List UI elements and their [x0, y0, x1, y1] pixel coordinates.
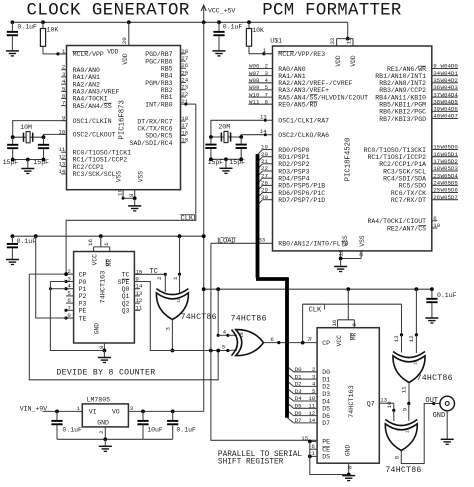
svg-text:VDD: VDD — [107, 49, 118, 56]
connector X1 OUT — [440, 396, 455, 411]
svg-text:Q7: Q7 — [367, 401, 375, 408]
IC1 pin 15 stub — [181, 142, 186, 144]
xor gate IC3B 74HCT86 middle — [232, 330, 238, 356]
svg-text:15: 15 — [301, 435, 308, 442]
wire XOR2 input 5 stub — [228, 349, 237, 352]
ground connector — [441, 438, 454, 440]
wire VCC rail y289 — [204, 288, 432, 290]
svg-text:17: 17 — [181, 122, 188, 129]
svg-text:5: 5 — [62, 85, 66, 92]
svg-text:GND: GND — [97, 420, 109, 427]
svg-text:3: 3 — [62, 71, 66, 78]
resistor R2 10K — [248, 22, 250, 28]
U$1 pin 37 wire with net label W04D4 — [432, 96, 458, 98]
svg-text:6: 6 — [433, 215, 437, 222]
svg-text:30: 30 — [261, 194, 268, 201]
svg-text:W10: W10 — [249, 91, 260, 98]
svg-text:2: 2 — [98, 430, 105, 434]
svg-text:12: 12 — [337, 249, 344, 256]
wire CP loop left — [29, 273, 66, 275]
wire U$1 VSS join — [341, 258, 362, 260]
svg-text:DEVIDE BY 8 COUNTER: DEVIDE BY 8 COUNTER — [56, 369, 155, 378]
U$1 pin 1 stub — [267, 53, 272, 55]
svg-text:0.1uF: 0.1uF — [17, 238, 37, 245]
IC2 pin 13 Q1 stub — [134, 295, 140, 297]
svg-text:RB1/AN10/INT1: RB1/AN10/INT1 — [375, 73, 426, 80]
svg-text:11: 11 — [401, 386, 408, 393]
svg-text:12: 12 — [408, 335, 415, 342]
bus spine vertical 1 — [256, 154, 260, 277]
wire VCC to XOR3 input 12 — [415, 289, 417, 335]
svg-text:5: 5 — [312, 388, 316, 395]
IC2 pin 15 TC stub — [134, 273, 140, 275]
svg-text:CLK: CLK — [181, 215, 194, 223]
svg-text:9: 9 — [351, 323, 358, 327]
svg-text:2: 2 — [265, 63, 269, 70]
svg-text:W04D1: W04D1 — [441, 70, 459, 77]
svg-text:W05D4: W05D4 — [441, 172, 459, 179]
U$1 VSS pin 31 — [360, 251, 362, 259]
svg-text:RD6/PSP6/P1C: RD6/PSP6/P1C — [278, 190, 325, 197]
IC1 pin 13 stub — [61, 166, 66, 168]
svg-text:14: 14 — [135, 283, 142, 290]
svg-text:74HCT86: 74HCT86 — [231, 314, 267, 323]
svg-text:MR: MR — [350, 332, 357, 340]
IC1 pin 3 stub — [61, 76, 66, 78]
svg-text:PGC/RB6: PGC/RB6 — [145, 58, 172, 65]
svg-text:RD3/PSP3: RD3/PSP3 — [278, 168, 309, 175]
svg-text:D3: D3 — [322, 391, 330, 398]
svg-text:32: 32 — [329, 37, 336, 44]
svg-text:PGM/RB3: PGM/RB3 — [145, 80, 172, 87]
U$1 pin 19 stub with bus entry — [263, 149, 273, 151]
svg-text:3: 3 — [312, 373, 316, 380]
svg-text:RC7/RX/DT: RC7/RX/DT — [391, 197, 426, 204]
svg-text:W05D2: W05D2 — [441, 158, 459, 165]
svg-text:D1: D1 — [322, 376, 330, 383]
IC1 VSS pin 19 — [122, 190, 124, 199]
svg-text:10: 10 — [308, 395, 315, 402]
IC2 pin 4 P1 stub — [66, 288, 74, 290]
svg-text:RA4/T0CKI: RA4/T0CKI — [73, 96, 108, 103]
svg-text:PIC18F4520: PIC18F4520 — [344, 138, 352, 182]
svg-text:CP: CP — [79, 271, 87, 278]
svg-text:W07: W07 — [249, 70, 260, 77]
IC1 pin 11 stub — [61, 151, 66, 153]
U$1 pin 3 wire with net label W07 — [249, 75, 273, 77]
svg-text:D1: D1 — [295, 373, 302, 380]
svg-text:1B: 1B — [239, 332, 245, 338]
wire SPE net — [134, 282, 228, 351]
IC4 pin 1 DS wire — [310, 455, 317, 457]
wire VCC mid rail y236 — [12, 235, 203, 237]
svg-text:RB0/AN12/INT0/FLT0: RB0/AN12/INT0/FLT0 — [278, 241, 348, 248]
capacitor C1 0.1uF top-left — [11, 22, 13, 31]
svg-text:TE: TE — [79, 315, 87, 322]
wire PE from LOAD — [310, 440, 317, 442]
svg-text:10: 10 — [386, 401, 393, 408]
svg-text:SAD/SDI/RC4: SAD/SDI/RC4 — [130, 140, 173, 147]
U$1 pin 18 wire with net label W05D3 — [432, 170, 458, 172]
svg-text:RC3/SCK/SCL: RC3/SCK/SCL — [73, 171, 116, 178]
svg-text:1B: 1B — [176, 297, 182, 303]
IC2 pin 0 TE stub — [66, 317, 74, 319]
IC2 pin 9 SPE stub — [134, 281, 140, 283]
ground for C1 — [6, 50, 19, 52]
svg-text:16: 16 — [181, 129, 188, 136]
wire VSS join — [123, 197, 135, 199]
svg-text:PE: PE — [322, 439, 330, 446]
wire R1 to pin1 — [43, 53, 58, 55]
ground C8 — [425, 317, 438, 319]
U$1 pin 27 stub with bus entry — [263, 177, 273, 179]
wire VDD riser of IC1 — [128, 22, 130, 45]
wire cap bottom rail — [13, 159, 44, 161]
svg-text:DS: DS — [322, 454, 330, 461]
svg-text:13: 13 — [58, 161, 65, 168]
svg-text:SPE: SPE — [118, 279, 130, 286]
U$1 pin 14 OSC2 — [267, 134, 272, 136]
U$1 pin 33 wire LOAD — [211, 242, 273, 244]
svg-text:3: 3 — [265, 70, 269, 77]
svg-text:74HCT163: 74HCT163 — [348, 385, 356, 418]
IC2 pin 3 P0 stub — [66, 281, 74, 283]
svg-text:20: 20 — [121, 37, 128, 44]
svg-text:W05D6: W05D6 — [441, 187, 459, 194]
wire TE to VCC — [36, 236, 66, 318]
U$1 pin 9 wire with net label W04D0 — [432, 68, 458, 70]
wire R2 to pin1 of U$1 — [249, 53, 264, 55]
U$1 pin 5 wire with net label W09 — [249, 89, 273, 91]
svg-text:0.1uF: 0.1uF — [176, 427, 196, 434]
ground crystal 2 caps — [220, 167, 233, 169]
wire P0 P1 to ground net — [50, 281, 66, 283]
svg-text:0.1uF: 0.1uF — [223, 24, 243, 31]
ground IC2 — [98, 357, 111, 359]
IC2 pin 7 PE stub — [66, 309, 74, 311]
svg-text:U$1: U$1 — [270, 37, 282, 44]
U$1 pin 28 stub with bus entry — [263, 184, 273, 186]
IC1 pin 23 stub — [181, 89, 186, 91]
wire OSC2 to crystal — [44, 134, 67, 137]
svg-text:RC0/T1OSO/T1CKI: RC0/T1OSO/T1CKI — [73, 150, 132, 157]
U$1 pin 10 stub — [432, 227, 438, 229]
svg-text:RD7/PSP7/P1D: RD7/PSP7/P1D — [278, 197, 325, 204]
IC1 pin 22 stub — [181, 96, 186, 98]
svg-text:RC6/TX/CK: RC6/TX/CK — [391, 190, 426, 197]
svg-text:D0: D0 — [322, 369, 330, 376]
capacitor C6 15pF — [240, 137, 242, 144]
U$1 pin 30 stub with bus entry — [263, 199, 273, 201]
svg-text:6: 6 — [62, 92, 66, 99]
svg-text:10: 10 — [433, 222, 440, 229]
svg-text:22: 22 — [261, 165, 268, 172]
svg-text:22: 22 — [181, 91, 188, 98]
ground regulator — [99, 445, 112, 447]
svg-text:2: 2 — [67, 268, 71, 275]
svg-text:15: 15 — [181, 137, 188, 144]
capacitor C9 0.1uF input — [56, 411, 58, 420]
IC2 pin 14 Q0 stub — [134, 288, 140, 290]
svg-text:1: 1 — [62, 48, 66, 55]
capacitor C5 15pF — [210, 137, 212, 144]
svg-text:RB2/AN8/INT2: RB2/AN8/INT2 — [379, 80, 426, 87]
svg-text:VSS: VSS — [138, 171, 145, 182]
svg-text:RA4/T0CKI/CIOUT: RA4/T0CKI/CIOUT — [367, 218, 426, 225]
wire VCC feed to IC4 — [347, 289, 349, 320]
svg-text:OUT: OUT — [425, 397, 438, 405]
bus overdraw spine 1 — [256, 154, 260, 277]
IC2 pin 2 CP stub — [66, 273, 74, 275]
svg-text:12: 12 — [58, 153, 65, 160]
IC4 pin 11 D5 wire with bus entry — [294, 407, 318, 409]
IC1 pin 10 stub — [61, 133, 66, 135]
svg-text:RA0/AN0: RA0/AN0 — [73, 67, 100, 74]
svg-text:1: 1 — [77, 405, 81, 412]
IC2 pin 5 P2 stub — [66, 295, 74, 297]
U$1 pin 16 wire with net label W05D1 — [432, 156, 458, 158]
svg-text:RE2/AN7/CS: RE2/AN7/CS — [387, 225, 426, 232]
svg-text:W05D0: W05D0 — [441, 144, 459, 151]
IC2 GND pin 8 — [103, 343, 105, 351]
svg-text:P1: P1 — [79, 286, 87, 293]
svg-text:12: 12 — [135, 297, 142, 304]
U$1 pin 25 wire with net label W05D6 — [432, 192, 458, 194]
svg-text:23: 23 — [181, 84, 188, 91]
svg-text:D3: D3 — [295, 388, 302, 395]
wire LOAD vertical — [211, 243, 317, 440]
capacitor C8 0.1uF right — [431, 289, 433, 298]
svg-text:7: 7 — [62, 100, 66, 107]
IC4 pin 12 D6 wire with bus entry — [294, 415, 318, 417]
svg-text:28: 28 — [261, 180, 268, 187]
svg-text:16: 16 — [87, 239, 94, 246]
U$1 pin 39 wire with net label W04D6 — [432, 110, 458, 112]
svg-text:0.1uF: 0.1uF — [437, 292, 457, 299]
svg-text:4: 4 — [223, 329, 227, 336]
svg-text:VI: VI — [89, 409, 97, 416]
svg-text:RB1: RB1 — [161, 94, 173, 101]
svg-text:4: 4 — [62, 78, 66, 85]
svg-text:D6: D6 — [295, 410, 302, 417]
IC4 pin 3 D1 wire with bus entry — [294, 378, 318, 380]
svg-text:RC4/SDI/SDA: RC4/SDI/SDA — [383, 176, 426, 183]
svg-text:1: 1 — [263, 47, 267, 54]
svg-text:6: 6 — [311, 443, 315, 450]
svg-text:Q3: Q3 — [122, 308, 130, 315]
svg-text:33: 33 — [258, 237, 265, 244]
svg-text:1: 1 — [311, 450, 315, 457]
IC1 pin 7 stub — [61, 105, 66, 107]
wire OSC2 U$1 to crystal — [241, 135, 265, 137]
U$1 pin 15 wire with net label W05D0 — [432, 149, 458, 151]
svg-text:12: 12 — [308, 410, 315, 417]
svg-text:Q0: Q0 — [122, 286, 130, 293]
IC4 pin 6 CE wire — [310, 448, 317, 450]
svg-text:W11: W11 — [249, 98, 260, 105]
svg-text:RA0/AN0: RA0/AN0 — [278, 66, 305, 73]
U$1 pin 20 stub with bus entry — [263, 156, 273, 158]
IC1 pin 2 stub — [61, 69, 66, 71]
svg-text:19: 19 — [261, 144, 268, 151]
svg-text:RB4: RB4 — [161, 73, 173, 80]
svg-text:15pF: 15pF — [33, 159, 49, 166]
IC2 pin 6 P3 stub — [66, 302, 74, 304]
wire VCC rail — [12, 21, 347, 23]
svg-text:RD5/PSP5/P1B: RD5/PSP5/P1B — [278, 183, 325, 190]
svg-text:5: 5 — [265, 84, 269, 91]
wire XOR3 output pin 11 to XOR4 input 9 — [408, 383, 410, 404]
xor gate IC3D 74HCT86 — [385, 420, 417, 426]
wire connector shield to ground — [446, 411, 448, 439]
wire OSC1 to crystal — [13, 121, 67, 138]
svg-text:W04D3: W04D3 — [441, 84, 459, 91]
svg-text:W04D6: W04D6 — [441, 106, 459, 113]
power symbol VCC_+5V — [203, 6, 205, 22]
wire VIN input — [43, 410, 77, 412]
svg-text:OSC1/CLKIN: OSC1/CLKIN — [73, 118, 112, 125]
svg-text:16: 16 — [331, 319, 338, 326]
IC1 pin 16 stub — [181, 134, 186, 136]
svg-text:D4: D4 — [295, 395, 302, 402]
svg-text:1B: 1B — [405, 428, 411, 434]
svg-text:W06: W06 — [249, 63, 260, 70]
IC4 pin 10 D4 wire with bus entry — [294, 400, 318, 402]
svg-text:LM7805: LM7805 — [87, 396, 111, 403]
IC U$1 PIC18F4520 body — [273, 46, 432, 251]
svg-text:W05D7: W05D7 — [441, 194, 459, 201]
svg-text:0.1uF: 0.1uF — [17, 24, 37, 31]
IC1 pin 1 stub — [61, 53, 66, 55]
IC1 pin 14 stub — [61, 173, 66, 175]
wire VDD riser of U$1 — [347, 22, 349, 38]
bus corner horizontal — [256, 277, 289, 281]
crystal Q2 20M — [224, 131, 228, 142]
wire CLK to XOR3 input 13 — [303, 303, 402, 305]
svg-text:TC: TC — [122, 272, 130, 279]
svg-text:PIC16F873: PIC16F873 — [119, 100, 127, 139]
ground C7 — [6, 259, 19, 261]
U$1 pin 8 wire with net label W11 — [249, 103, 273, 105]
svg-text:Q2: Q2 — [122, 300, 130, 307]
IC1 pin 27 stub — [181, 60, 186, 62]
svg-text:RC1/T1OSI/ICCP2: RC1/T1OSI/ICCP2 — [367, 154, 426, 161]
svg-text:VCC_+5V: VCC_+5V — [208, 8, 235, 15]
bus overdraw corner — [256, 277, 289, 281]
svg-text:25: 25 — [181, 69, 188, 76]
svg-text:74HCT86: 74HCT86 — [417, 374, 453, 383]
svg-text:10uF: 10uF — [147, 427, 163, 434]
svg-text:27: 27 — [261, 172, 268, 179]
IC1 pin 17 stub — [181, 127, 186, 129]
svg-text:D5: D5 — [322, 406, 330, 413]
wire crystal caps bottom rail — [211, 158, 241, 160]
U$1 pin 13 OSC1 — [267, 119, 272, 121]
wire CLK stub to CP wire — [302, 304, 304, 342]
svg-text:VDD: VDD — [350, 55, 357, 66]
IC1 pin 9 stub — [61, 120, 66, 122]
svg-text:15pF: 15pF — [3, 159, 19, 166]
IC4 pin 14 D7 wire with bus entry — [294, 422, 318, 424]
wire XOR2 output to CP of IC4 — [264, 342, 318, 344]
svg-text:D2: D2 — [322, 384, 330, 391]
wire CLK from INT/RB0 — [186, 103, 196, 105]
U$1 pin 21 stub with bus entry — [263, 163, 273, 165]
svg-text:RB5: RB5 — [161, 66, 173, 73]
svg-text:11: 11 — [135, 304, 142, 311]
IC2 pin 11 Q3 stub — [134, 309, 140, 311]
svg-text:74HCT86: 74HCT86 — [385, 466, 421, 475]
svg-text:W04D4: W04D4 — [441, 91, 459, 98]
IC1 pin 21 stub — [181, 103, 186, 105]
wire crystal rail — [13, 136, 44, 138]
svg-text:PGD/RB7: PGD/RB7 — [145, 51, 172, 58]
svg-text:VCC: VCC — [91, 254, 98, 265]
svg-text:RC1/T1OSI/CCP2: RC1/T1OSI/CCP2 — [73, 157, 128, 164]
svg-text:RA3/AN3/VREF+: RA3/AN3/VREF+ — [278, 87, 329, 94]
xor gate IC3A 74HCT86 — [156, 289, 188, 295]
U$1 pin 29 stub with bus entry — [263, 192, 273, 194]
wire XOR1 output pin 3 — [171, 320, 173, 351]
svg-text:19: 19 — [117, 189, 124, 196]
svg-text:RC3/SCK/SCL: RC3/SCK/SCL — [383, 168, 426, 175]
svg-text:5: 5 — [67, 290, 71, 297]
wire TC to XOR1 input 2 — [134, 273, 165, 275]
U$1 pin 17 wire with net label W05D2 — [432, 163, 458, 165]
svg-text:W05D1: W05D1 — [441, 151, 459, 158]
svg-text:10M: 10M — [20, 124, 32, 131]
svg-text:9: 9 — [401, 407, 408, 411]
svg-text:RD4/PSP4: RD4/PSP4 — [278, 176, 309, 183]
svg-text:1: 1 — [172, 276, 179, 280]
svg-text:RE1/AN6/WR: RE1/AN6/WR — [387, 66, 426, 73]
svg-text:8: 8 — [128, 193, 135, 197]
ground IC4 — [342, 475, 355, 477]
U$1 pin 36 wire with net label W04D3 — [432, 89, 458, 91]
IC1 pin 25 stub — [181, 74, 186, 76]
svg-text:6: 6 — [270, 336, 274, 343]
wire regulator bottom rail — [57, 438, 173, 440]
svg-text:W04D0: W04D0 — [441, 63, 459, 70]
svg-text:OSC2/CLKOUT: OSC2/CLKOUT — [73, 132, 116, 139]
svg-text:CLK: CLK — [309, 307, 322, 315]
svg-text:8: 8 — [347, 465, 354, 469]
svg-text:W05D3: W05D3 — [441, 165, 459, 172]
ground U$1 VSS — [334, 266, 347, 268]
svg-text:10K: 10K — [47, 27, 59, 34]
svg-text:OSC2/CLKO/RA6: OSC2/CLKO/RA6 — [278, 132, 329, 139]
svg-text:7: 7 — [67, 304, 71, 311]
svg-text:11: 11 — [346, 37, 353, 44]
wire XOR4 output pin 8 to OUT — [401, 404, 434, 464]
ground IC1 VSS — [128, 205, 141, 207]
svg-text:6: 6 — [67, 297, 71, 304]
svg-text:4: 4 — [312, 381, 316, 388]
svg-text:VSS: VSS — [359, 235, 366, 246]
svg-text:VO: VO — [112, 409, 120, 416]
svg-text:3: 3 — [130, 405, 134, 412]
IC1 pin 26 stub — [181, 67, 186, 69]
wire VCC to XOR1 input 1 — [179, 236, 181, 274]
svg-text:RC5/SDO: RC5/SDO — [399, 183, 426, 190]
svg-text:1: 1 — [103, 242, 110, 246]
svg-text:0: 0 — [67, 312, 71, 319]
svg-text:RD1/PSP1: RD1/PSP1 — [278, 154, 309, 161]
svg-text:CLOCK GENERATOR: CLOCK GENERATOR — [27, 2, 190, 21]
svg-text:VSS: VSS — [116, 171, 123, 182]
svg-text:RA5/AN4/SS/HLVDIN/C2OUT: RA5/AN4/SS/HLVDIN/C2OUT — [278, 94, 368, 101]
svg-text:2: 2 — [156, 276, 163, 280]
